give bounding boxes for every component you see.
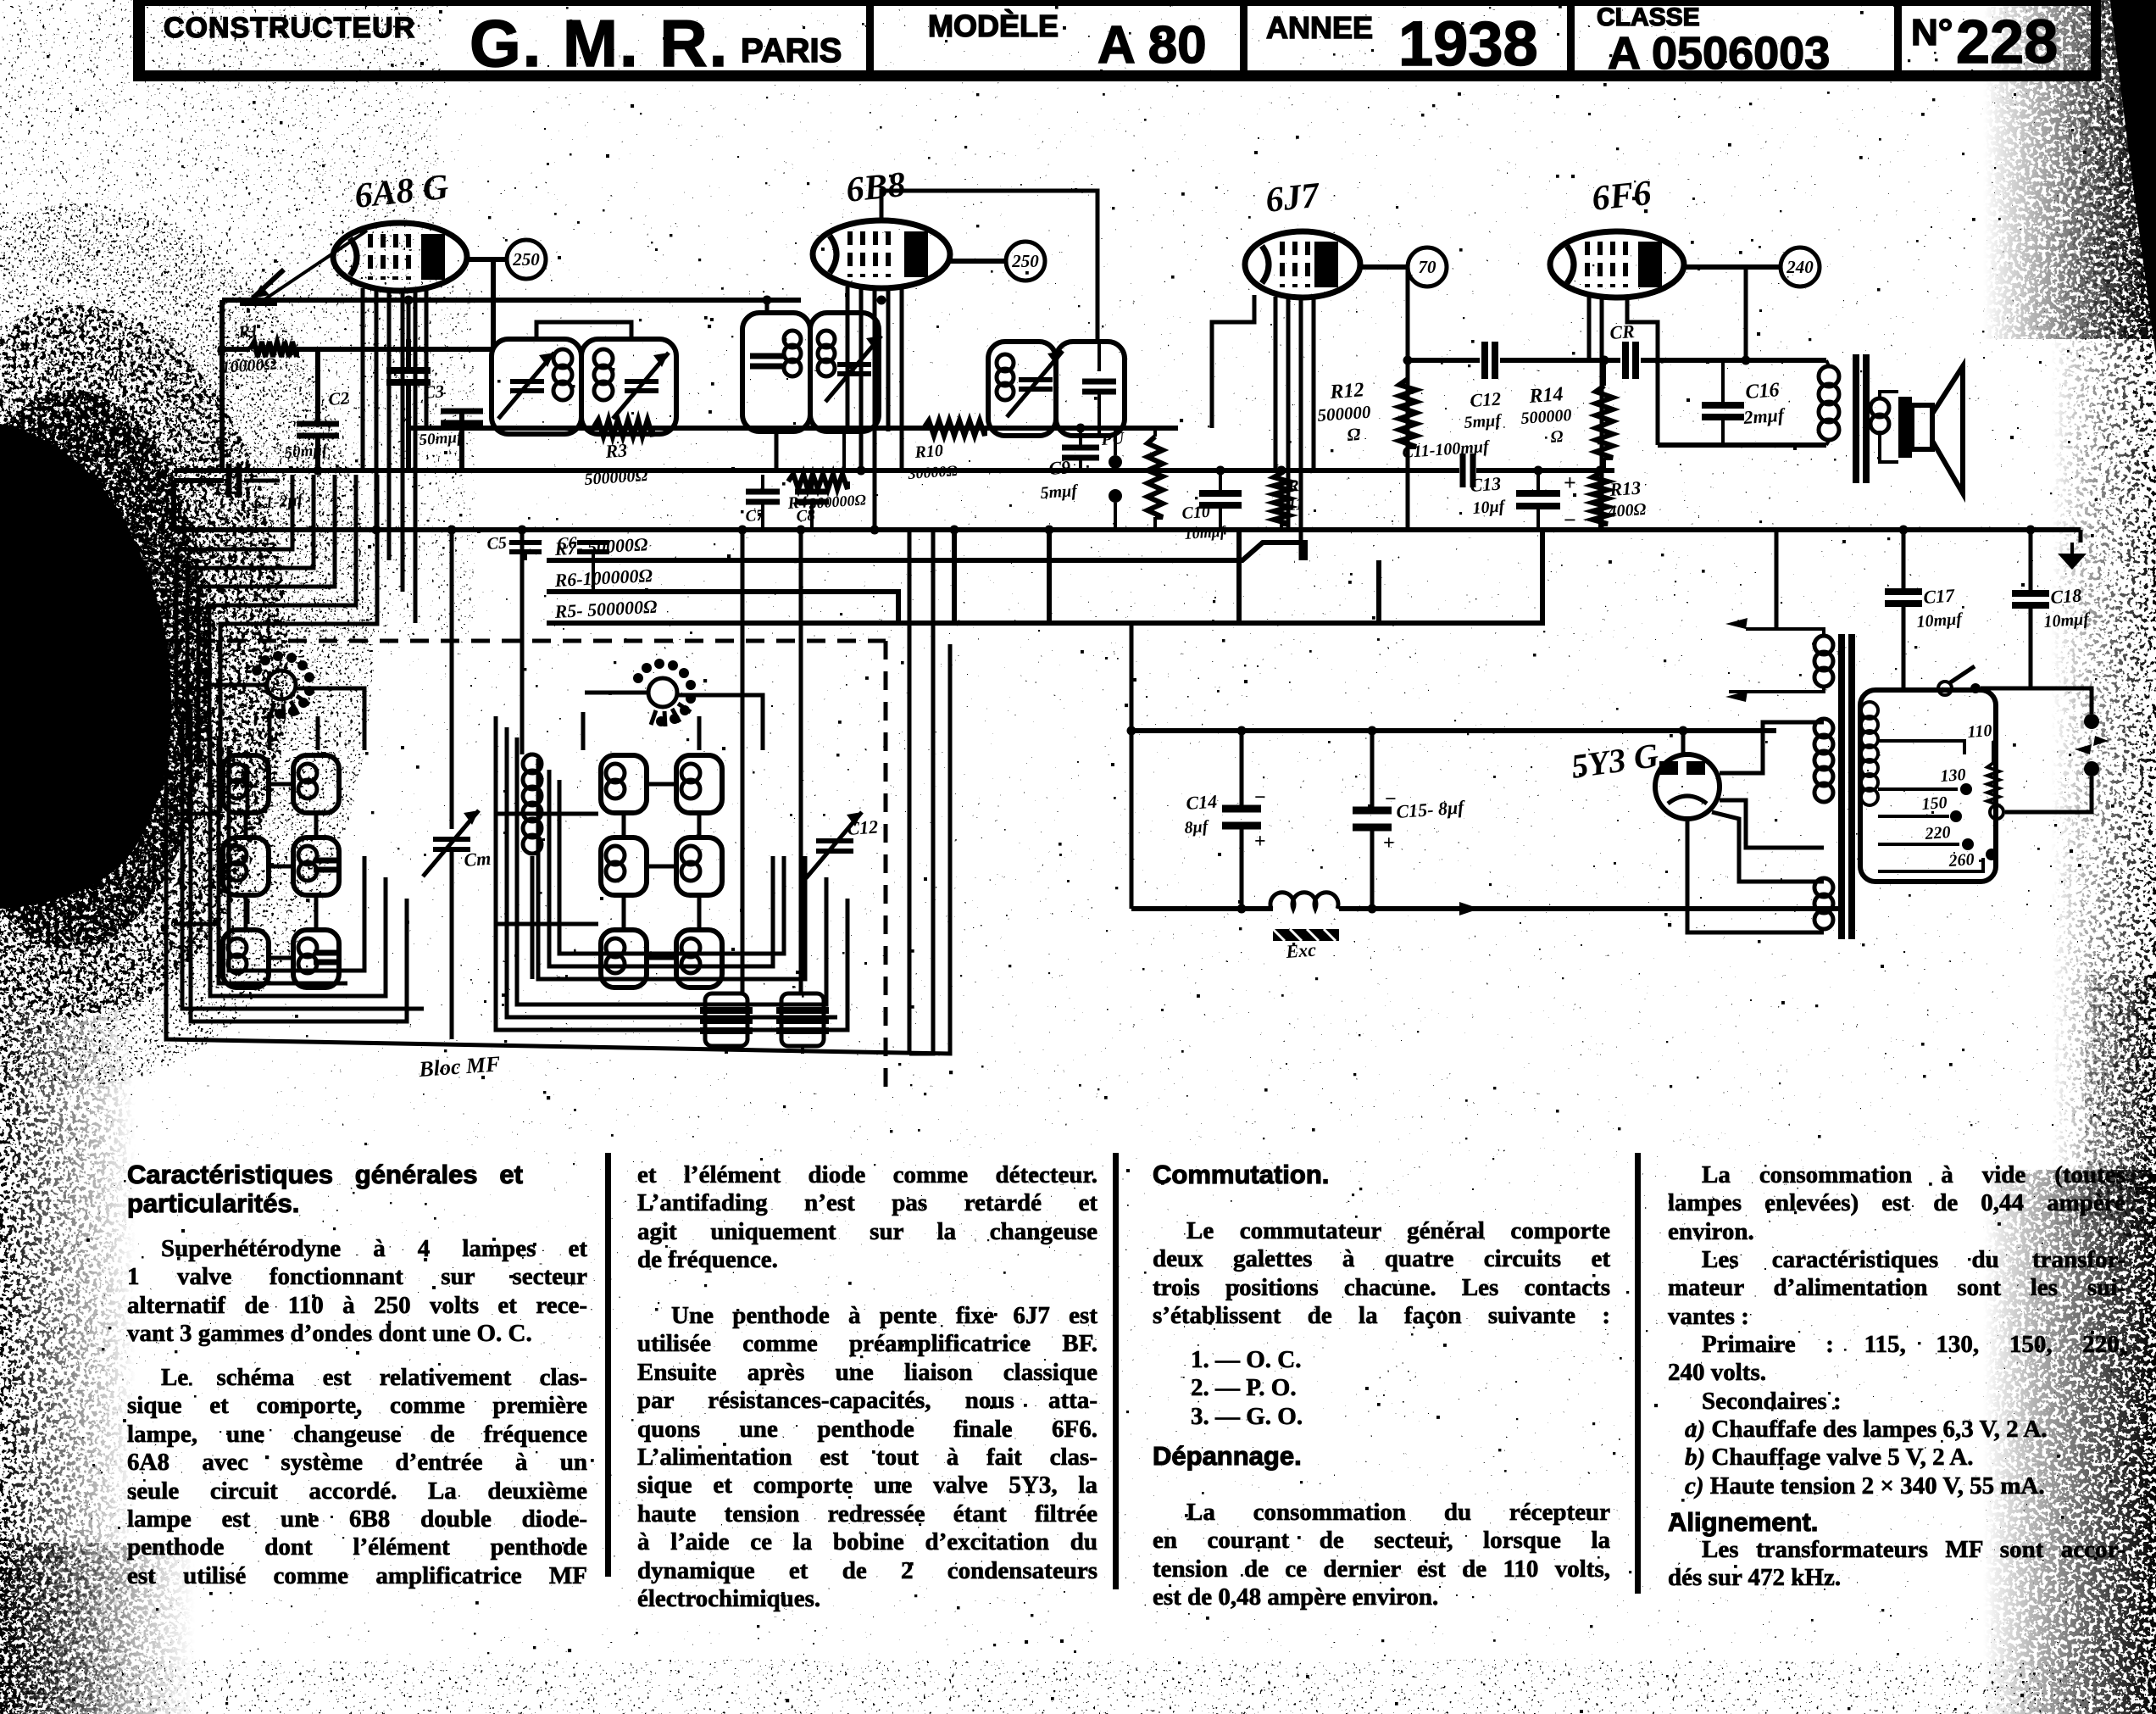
output transformer core xyxy=(1853,354,1859,483)
wire riser x1462 xyxy=(1236,530,1242,625)
tube 5Y3G xyxy=(1569,736,1720,819)
tap 110 xyxy=(1878,741,1964,754)
capacitor C16 xyxy=(1702,405,1744,417)
resistor R12 xyxy=(1399,379,1416,447)
wire riser x1101 xyxy=(909,530,933,1054)
capacitor C2 xyxy=(297,424,339,436)
ground symbol xyxy=(2058,554,2087,570)
tuning coil L1 xyxy=(223,755,269,813)
output transformer primary coil xyxy=(1819,366,1839,387)
tube 6B8 xyxy=(813,165,950,288)
wire coilbox stubs xyxy=(244,812,248,838)
wire anode feed line y505 xyxy=(407,426,1178,431)
tuning gang capacitor Ct2 xyxy=(816,841,853,851)
wire gang riser 4 xyxy=(799,530,803,993)
wire 6A8G pin leads xyxy=(361,288,365,470)
resistor R1 xyxy=(250,342,297,357)
wire HT bottom to 5Y3 plate xyxy=(1720,800,1824,848)
antenna xyxy=(253,270,284,298)
wire riser x1073 xyxy=(908,530,912,1054)
wire plug return xyxy=(2005,776,2092,812)
padding capacitor Cp2 xyxy=(781,993,824,1046)
capacitor C18 xyxy=(2029,530,2033,593)
wire HT feed line y862 xyxy=(1131,728,1776,733)
wire nest group2 xyxy=(496,716,847,1030)
mains switch xyxy=(1938,682,1952,695)
resistor R10 xyxy=(924,420,985,436)
fuse resistor xyxy=(1990,805,2003,819)
resistor R14 xyxy=(1603,360,1606,386)
speaker voice coil xyxy=(1870,398,1889,417)
wire 5Y3 cathode riser xyxy=(1681,731,1686,755)
pickup PU xyxy=(1109,455,1122,469)
tube 6A8G xyxy=(333,168,467,291)
resistor R3 xyxy=(593,420,653,437)
capacitor C1 xyxy=(174,478,224,483)
wire valve heater to 5Y3 xyxy=(1712,812,1824,882)
heater arrows xyxy=(1725,618,1748,629)
wire 6J7 pin leads xyxy=(1274,297,1278,470)
capacitor C5 xyxy=(509,543,542,552)
tuning block outline xyxy=(166,644,950,1054)
IF transformer T3 primary xyxy=(988,342,1056,436)
capacitor CR xyxy=(1625,342,1636,379)
resistor R13 xyxy=(1598,470,1602,475)
wire left power riser xyxy=(1130,625,1134,909)
capacitor C14 xyxy=(1240,731,1244,809)
dashed boundary of tuning block xyxy=(166,639,886,643)
capacitor C10 xyxy=(1199,493,1242,505)
tuning coil L4 xyxy=(293,755,339,813)
tuning coil L10 xyxy=(676,755,722,813)
capacitor C15 xyxy=(1370,731,1375,810)
wire nest group1 inner xyxy=(182,714,424,1009)
wire 6B8 top cap to T3 xyxy=(881,191,1097,342)
transformer valve-heater winding (bottom left) xyxy=(1814,878,1833,897)
capacitor C3 xyxy=(441,411,483,423)
tuning coil L9 xyxy=(601,930,647,988)
voltage selector box xyxy=(1860,690,1996,882)
flow arrow on bottom line xyxy=(1459,902,1480,915)
wire riser x1238 xyxy=(1047,530,1052,623)
rotary wafer switch S2 xyxy=(648,678,677,707)
wire R12 to C12 line y425 xyxy=(1408,358,1480,363)
rotary wafer switch S1 xyxy=(267,671,296,699)
wire output loop bottom xyxy=(1658,442,1826,448)
tap 260 xyxy=(1878,858,1983,871)
tap 220 xyxy=(1878,843,1959,846)
wire 6J7 grid lead xyxy=(1212,295,1254,428)
tuning coil L2 xyxy=(223,838,269,895)
IF transformer T1 secondary xyxy=(581,339,676,434)
transformer HT winding (mid left) xyxy=(1814,719,1833,737)
wire top grid bus y354 xyxy=(222,298,801,303)
capacitor C7 xyxy=(746,492,780,502)
wire 6F6 pin leads xyxy=(1587,297,1592,360)
wire switch to plug xyxy=(1981,688,2092,714)
wire riser x1126 xyxy=(952,530,957,623)
wire detector line y555 xyxy=(174,468,1459,473)
capacitor C9 xyxy=(1062,448,1099,458)
wire 6B8 pin leads xyxy=(846,287,850,428)
wire riser x1627 xyxy=(1376,560,1381,625)
resistor R4 xyxy=(788,474,847,489)
tuning gang capacitor Cm xyxy=(433,839,470,849)
tuning coil L5 xyxy=(293,838,339,895)
wire gang riser 2 xyxy=(520,530,525,754)
wire AVC ladder line 1 xyxy=(547,543,1305,560)
transformer primary winding (right) xyxy=(1861,702,1878,719)
wire gang riser 3 xyxy=(741,530,745,993)
wire gang riser 1 xyxy=(450,530,454,829)
wire junction dots xyxy=(218,345,227,354)
capacitor C4 (on T1 feed) xyxy=(386,370,431,382)
wire CR to output xyxy=(1641,358,1826,363)
wire T1 top feed xyxy=(407,300,411,339)
resistor R11 xyxy=(1280,470,1283,475)
wire grid staircase into coil block xyxy=(176,475,292,716)
tuning coil L6 xyxy=(293,930,339,988)
transformer heater winding (top left) xyxy=(1814,636,1833,654)
wire antenna down lead xyxy=(219,300,225,470)
node 350 (anode voltage circle of 6B8) xyxy=(950,242,1045,281)
filter choke Exc (field coil) xyxy=(1270,893,1338,909)
capacitor C12 xyxy=(1485,342,1495,379)
tuning coil L12 xyxy=(676,930,722,988)
capacitor C13 xyxy=(1516,493,1560,506)
tap 150 xyxy=(1878,815,1949,818)
oscillator coil L13 xyxy=(523,754,542,773)
tap 130 xyxy=(1878,787,1958,791)
wire bus drop to heater winding xyxy=(1775,530,1779,629)
capacitor C11 (series on detector line) xyxy=(1463,454,1473,487)
node 70 (anode voltage circle of 6J7) xyxy=(1360,248,1447,287)
power transformer core xyxy=(1838,634,1845,939)
IF transformer T3 secondary xyxy=(1056,342,1125,436)
capacitor C8 xyxy=(795,492,829,502)
capacitor C6 xyxy=(577,543,609,552)
wire 6J7 anode riser xyxy=(1406,267,1410,530)
resistor R11a xyxy=(1153,428,1157,437)
wire HT top to 5Y3 plate xyxy=(1720,722,1824,773)
tuning coil L11 xyxy=(676,838,722,895)
mains plug xyxy=(2084,714,2099,729)
IF transformer T2 secondary xyxy=(810,313,879,431)
wire nest group1 xyxy=(191,704,407,1021)
wire AVC ladder line 3 xyxy=(547,530,1542,623)
capacitor C17 xyxy=(1902,530,1906,592)
node 240 (anode voltage circle of 6F6) xyxy=(1684,248,1820,287)
tube 6F6 xyxy=(1550,174,1684,298)
wire 6F6 anode drop xyxy=(1744,270,1748,360)
wire bus elbow to ground xyxy=(2079,530,2083,543)
node 250 (anode voltage circle of 6A8G) xyxy=(467,240,546,279)
wire C12 to CR xyxy=(1500,358,1620,363)
tuning coil L7 xyxy=(601,755,647,813)
wire antenna line y412 xyxy=(222,347,250,352)
tube 6J7 xyxy=(1245,175,1360,298)
wire T2 risers xyxy=(765,300,770,313)
padding capacitor Cp1 xyxy=(705,993,747,1046)
wire power bottom line y1072 xyxy=(1131,906,1273,911)
speaker xyxy=(1898,397,1912,458)
tuning coil L8 xyxy=(601,838,647,895)
wire anode riser x582 xyxy=(491,259,496,349)
IF transformer T2 primary xyxy=(742,313,810,431)
wire AVC ladder line 2 xyxy=(547,592,898,623)
tuning coil L3 xyxy=(223,930,269,988)
wire main chassis bus y625 xyxy=(174,527,2081,532)
wire pad caps bottom xyxy=(725,1046,728,1054)
wire nest group2 inner xyxy=(507,727,837,1017)
IF transformer T1 primary xyxy=(492,339,581,434)
